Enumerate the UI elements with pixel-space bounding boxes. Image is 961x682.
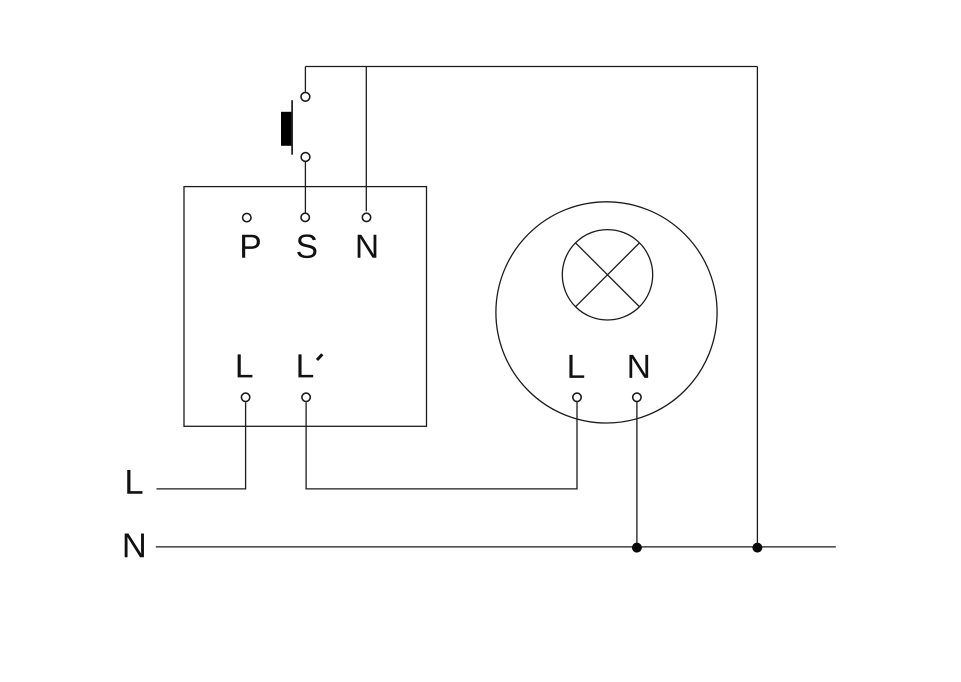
label L (supply): [127, 470, 142, 494]
terminal P: [243, 213, 251, 221]
push-button S1 contact bar: [291, 100, 293, 155]
label prime mark: [317, 354, 322, 360]
label N (lamp): [629, 355, 648, 378]
terminal N: [362, 213, 370, 221]
label N (supply): [125, 533, 144, 557]
label S: [297, 234, 316, 258]
wire stub top to push-button: [304, 67, 306, 92]
lamp outline circle: [496, 202, 717, 423]
wire box terminal L' to lamp terminal L: [306, 402, 577, 489]
wire terminal N to top wire: [365, 67, 367, 212]
push-button S1 terminal top: [301, 92, 310, 101]
wire top horizontal L-feed: [305, 66, 757, 68]
wire N supply line: [156, 546, 836, 548]
wire push-button to terminal S: [304, 162, 306, 213]
push-button S1 actuator: [281, 112, 291, 146]
label L (lamp): [569, 355, 584, 378]
push-button S1 terminal bottom: [301, 153, 310, 162]
wire L supply to box terminal L: [157, 402, 246, 489]
lamp terminal N: [633, 393, 641, 401]
lamp symbol cross stroke 2: [576, 243, 640, 307]
wire right vertical down to N line: [756, 67, 758, 548]
terminal L': [302, 393, 310, 401]
lamp symbol cross stroke 1: [576, 243, 640, 307]
lamp terminal L: [573, 393, 581, 401]
terminal S: [301, 213, 309, 221]
junction dot right loop on N line: [752, 543, 762, 553]
label P: [242, 235, 260, 258]
label N: [358, 235, 377, 258]
label L (box): [238, 354, 253, 377]
device box (motion sensor): [184, 187, 427, 427]
junction dot lamp N on N line: [632, 543, 642, 553]
wire lamp terminal N down to N line: [636, 402, 638, 547]
label L' (box): [298, 354, 313, 377]
terminal L: [241, 393, 249, 401]
lamp symbol circle: [562, 230, 652, 320]
